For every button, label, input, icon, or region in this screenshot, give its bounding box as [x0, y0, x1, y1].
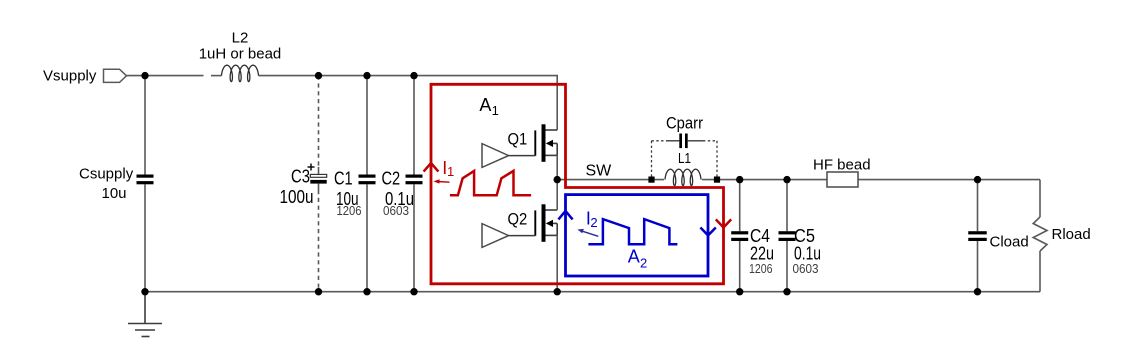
svg-text:A: A [628, 246, 640, 266]
svg-text:Q2: Q2 [508, 209, 528, 228]
svg-text:Vsupply: Vsupply [43, 68, 97, 85]
svg-text:2: 2 [590, 215, 597, 230]
svg-text:10u: 10u [102, 185, 127, 202]
svg-text:0603: 0603 [383, 203, 409, 218]
svg-text:Cload: Cload [990, 233, 1029, 250]
svg-text:SW: SW [586, 163, 613, 180]
svg-text:A: A [479, 95, 491, 115]
svg-text:C1: C1 [334, 169, 353, 189]
svg-text:Cparr: Cparr [666, 114, 703, 132]
svg-text:C2: C2 [382, 169, 401, 189]
svg-text:1: 1 [447, 164, 454, 179]
svg-text:1uH or bead: 1uH or bead [199, 46, 282, 63]
svg-text:1206: 1206 [749, 261, 773, 276]
svg-text:HF bead: HF bead [813, 157, 871, 174]
svg-text:0603: 0603 [793, 261, 819, 276]
svg-text:2: 2 [640, 256, 647, 271]
svg-text:L2: L2 [232, 30, 249, 47]
svg-text:1206: 1206 [337, 203, 362, 218]
svg-text:C3: C3 [291, 167, 310, 187]
svg-text:1: 1 [492, 103, 499, 118]
svg-text:Q1: Q1 [508, 129, 528, 148]
svg-text:100u: 100u [280, 187, 314, 207]
svg-text:L1: L1 [678, 150, 691, 167]
svg-text:Rload: Rload [1052, 226, 1091, 243]
svg-text:Csupply: Csupply [79, 166, 134, 183]
